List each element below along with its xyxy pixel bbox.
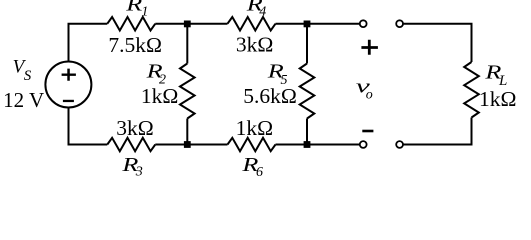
open terminal bottom right (load): [396, 141, 403, 148]
node B junction (top of R5): [304, 21, 311, 28]
label R3: [121, 155, 143, 180]
svg-text:3kΩ: 3kΩ: [236, 33, 273, 57]
wire from source - terminal down and right to R3: [68, 108, 108, 145]
label R5: [266, 62, 287, 89]
resistor R1: [107, 17, 155, 31]
label R6: [241, 155, 263, 180]
label R2: [145, 61, 166, 87]
svg-text:5.6kΩ: 5.6kΩ: [243, 84, 297, 108]
label vo: [356, 76, 373, 102]
label RL: [484, 62, 507, 89]
open terminal bottom left (output -): [360, 141, 367, 148]
svg-text:1kΩ: 1kΩ: [479, 87, 516, 111]
svg-text:R: R: [125, 0, 142, 16]
svg-text:4: 4: [259, 4, 266, 19]
node C junction (bottom of R2): [184, 141, 191, 148]
plus polarity mark of vo: [361, 40, 378, 55]
wire R2 down to node C: [186, 119, 188, 145]
wire R3 to R6 through node C: [155, 144, 227, 146]
plus sign inside source: [62, 69, 76, 81]
wire node A down to R2: [186, 24, 188, 64]
minus sign inside source: [63, 100, 74, 102]
wire R6 to bottom output terminal through node D: [276, 144, 360, 146]
wire R4 to top output terminal through node B: [276, 23, 360, 25]
node D junction (bottom of R5): [304, 141, 311, 148]
svg-text:3kΩ: 3kΩ: [116, 116, 153, 140]
resistor RL: [464, 62, 479, 118]
open terminal top left (output +): [360, 20, 367, 27]
label R4: [245, 0, 266, 19]
svg-text:1kΩ: 1kΩ: [141, 84, 178, 108]
wire RL down to bottom load terminal: [403, 118, 472, 146]
resistor R2: [180, 64, 195, 119]
svg-text:o: o: [366, 88, 373, 103]
voltage source VS circle: [45, 62, 91, 108]
label R1: [125, 0, 148, 20]
svg-text:7.5kΩ: 7.5kΩ: [108, 33, 162, 57]
svg-text:1: 1: [141, 5, 148, 20]
wire R5 down to node D: [306, 119, 308, 145]
label VS: [13, 57, 32, 85]
svg-text:S: S: [24, 68, 32, 84]
resistor R6: [228, 138, 276, 151]
open terminal top right (load): [396, 20, 403, 27]
svg-text:6: 6: [256, 165, 263, 180]
resistor R4: [228, 17, 276, 31]
wire top load terminal to RL: [403, 23, 472, 62]
svg-text:1kΩ: 1kΩ: [236, 116, 273, 140]
wire from source + terminal up and right to R1: [68, 24, 108, 62]
svg-text:3: 3: [135, 165, 143, 180]
resistor R5: [300, 64, 315, 119]
resistor R3: [107, 138, 155, 151]
wire node B down to R5: [306, 24, 308, 64]
node A junction (top of R2): [184, 21, 191, 28]
minus polarity mark of vo: [362, 130, 373, 133]
wire R1 to R4 through node A: [155, 23, 227, 25]
svg-text:12 V: 12 V: [3, 88, 44, 112]
